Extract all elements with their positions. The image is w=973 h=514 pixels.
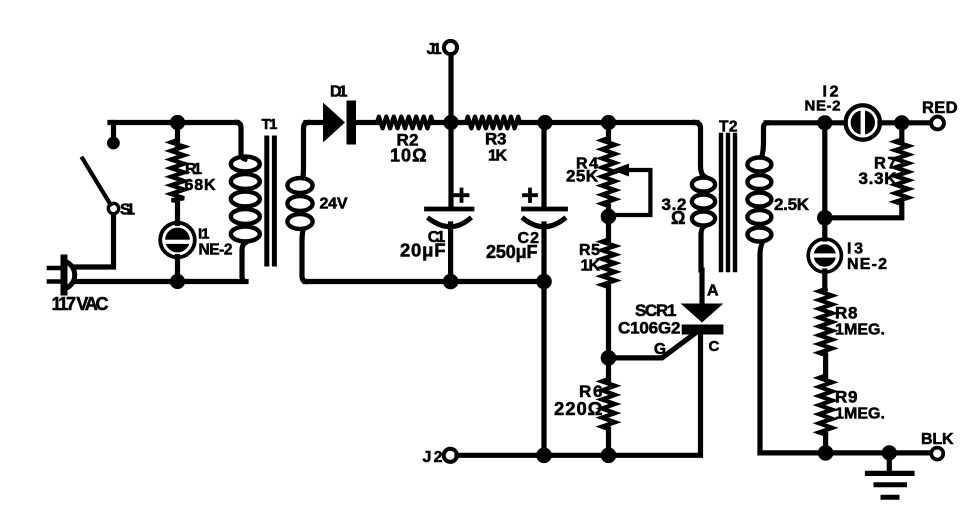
transformer T1 core (267, 138, 275, 264)
wire R1 to I1 (175, 201, 180, 224)
node top of R7 (894, 115, 909, 130)
node R9 bottom (818, 445, 834, 461)
node R6 bottom (601, 448, 617, 464)
svg-text:R5: R5 (579, 242, 600, 259)
resistor R7 (895, 140, 908, 205)
transformer T1 primary lead top (237, 123, 245, 160)
neon lamp I2 (846, 105, 880, 139)
resistor R4 (602, 138, 615, 206)
svg-text:1MEG.: 1MEG. (835, 322, 885, 339)
svg-text:J1: J1 (427, 41, 442, 58)
svg-text:68K: 68K (185, 177, 216, 194)
wire mid bottom rail (305, 279, 547, 284)
wire R6 bottom (606, 429, 611, 455)
wire bottom-left rail (plug lower terminal to T1 primary bottom) (77, 279, 243, 284)
wire R4 top stub (606, 123, 611, 142)
wire R7 top stem (899, 123, 904, 140)
neon lamp I1 (160, 223, 195, 258)
capacitor C1 stem (448, 123, 453, 208)
wire plug upper terminal to switch branch (76, 213, 114, 267)
wire J1 stem (448, 54, 453, 116)
wire BLK rail (760, 450, 932, 455)
svg-text:NE-2: NE-2 (805, 98, 841, 115)
transformer T2 primary winding (692, 178, 715, 226)
svg-text:220Ω: 220Ω (554, 398, 603, 419)
capacitor C2 stem (541, 123, 546, 208)
wire J2 rail (457, 334, 701, 455)
svg-text:C: C (709, 338, 720, 355)
svg-text:Ω: Ω (671, 208, 685, 228)
svg-text:T1: T1 (262, 116, 278, 133)
transformer T1 primary lead bottom (242, 243, 246, 282)
svg-text:R8: R8 (835, 304, 858, 323)
svg-text:24V: 24V (320, 196, 348, 213)
svg-text:R1: R1 (185, 161, 202, 178)
svg-text:1MEG.: 1MEG. (835, 406, 885, 423)
node R4/R5 junction (601, 209, 617, 225)
SCR1 anode wire (699, 270, 704, 304)
transformer T1 secondary lead bottom (302, 230, 306, 282)
svg-text:R9: R9 (835, 388, 858, 407)
jack J1 terminal (444, 41, 457, 54)
switch S1 (83, 123, 120, 214)
svg-text:25K: 25K (566, 167, 599, 186)
node ground junction (882, 445, 897, 460)
transformer T1 primary winding (231, 157, 260, 242)
potentiometer R4 wiper arrow (612, 164, 651, 216)
svg-text:NE-2: NE-2 (199, 242, 233, 259)
svg-text:1K: 1K (581, 258, 601, 275)
svg-text:C106G2: C106G2 (618, 319, 681, 338)
svg-text:RED: RED (922, 99, 958, 117)
svg-text:20μF: 20μF (400, 240, 446, 261)
svg-text:2.5K: 2.5K (774, 195, 810, 214)
wire R9 bottom (823, 435, 828, 453)
resistor R3 (466, 117, 520, 129)
wire I1 bottom (175, 257, 180, 282)
svg-text:SCR1: SCR1 (635, 301, 677, 320)
node top of R4 (601, 115, 616, 130)
svg-text:I1: I1 (198, 226, 210, 243)
capacitor C1 (427, 190, 473, 282)
svg-text:R3: R3 (485, 130, 507, 149)
svg-text:3.3K: 3.3K (859, 169, 898, 188)
svg-text:S1: S1 (120, 202, 135, 219)
svg-text:BLK: BLK (921, 431, 954, 448)
svg-text:D1: D1 (330, 84, 348, 101)
svg-text:A: A (707, 283, 719, 300)
svg-text:117 VAC: 117 VAC (52, 294, 109, 314)
SCR1 (681, 304, 724, 335)
resistor R8 (819, 289, 832, 355)
wire I3 to R8 (822, 271, 827, 290)
wire R7 bottom to I3 branch (825, 204, 902, 218)
wire R8 to R9 (823, 355, 828, 376)
neon lamp I3 (808, 239, 841, 272)
transformer T2 core (721, 135, 735, 270)
terminal BLK (931, 448, 943, 460)
resistor R2 (377, 117, 433, 129)
transformer T2 secondary winding (747, 158, 771, 242)
wire R2 to J1 node (433, 120, 466, 125)
node I3 branch top (817, 115, 832, 130)
node bottom of C1 (443, 274, 459, 290)
node bottom of I1 (170, 274, 185, 289)
wire T2 secondary top rail (766, 120, 845, 125)
resistor R5 (602, 240, 615, 288)
wire gate lead (609, 332, 698, 358)
wire top rail left (switch to T1 primary) (110, 120, 237, 125)
resistor R1 (171, 140, 184, 201)
transformer T2 secondary lead bottom (760, 243, 762, 453)
plug 117 VAC (49, 258, 75, 292)
resistor R6 (602, 379, 615, 429)
jack J2 terminal (444, 449, 457, 462)
transformer T2 primary lead bottom (701, 227, 704, 270)
wire D1 to R2 (356, 120, 378, 125)
svg-text:J2: J2 (423, 449, 443, 466)
wire I3 branch upper (822, 123, 827, 239)
diode D1 (323, 101, 356, 145)
wire R5 to R6 (606, 287, 611, 380)
node C2 bottom rail (536, 448, 552, 464)
svg-text:G: G (654, 341, 666, 358)
wire T1 secondary top to D1 (306, 120, 324, 125)
svg-text:10Ω: 10Ω (390, 146, 427, 166)
wire R1 branch top (175, 123, 180, 147)
node J1 junction (443, 115, 458, 130)
node gate junction (601, 350, 617, 366)
node R7/I3 junction (817, 210, 833, 226)
transformer T1 secondary lead top (303, 123, 308, 178)
node top of C2 (537, 115, 552, 130)
svg-text:I3: I3 (847, 241, 863, 258)
svg-text:T2: T2 (719, 119, 738, 136)
svg-text:250μF: 250μF (486, 242, 538, 262)
node top of R1 (170, 115, 185, 130)
transformer T1 secondary winding (287, 178, 312, 229)
wire R4 to R5 (606, 206, 611, 240)
capacitor C2 (524, 190, 566, 456)
svg-text:1K: 1K (488, 148, 507, 165)
ground (868, 453, 913, 497)
resistor R9 (819, 376, 832, 435)
wire R3 to T2 primary (520, 120, 697, 125)
svg-text:NE-2: NE-2 (847, 256, 887, 273)
terminal RED (931, 117, 944, 130)
wire I2 to RED (880, 120, 931, 125)
node bottom of C2 (536, 274, 552, 290)
transformer T2 secondary lead top (762, 123, 768, 157)
transformer T2 primary lead top (695, 123, 705, 177)
